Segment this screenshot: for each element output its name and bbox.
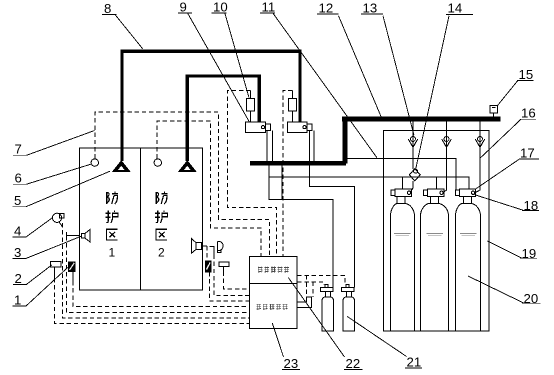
extinguishing controller label 灭火控制器 [256,304,287,310]
check valve CV1 [411,137,416,142]
wall between zone 1 and zone 2 [139,148,141,290]
horn wiring bracket [209,246,214,254]
leader 10 [225,13,249,98]
riser 1 lower link to cylinder head [411,181,414,192]
leader 7 [27,131,95,156]
selector valve SV2 outlet port [307,124,312,130]
svg-text:7: 7 [15,142,22,157]
svg-text:3: 3 [14,245,21,260]
underline 14 [446,13,473,15]
leader 19 [487,241,522,258]
lower collecting manifold [250,161,346,166]
svg-text:19: 19 [522,246,537,261]
underline 15 [517,79,534,81]
zone 2 label 区 [156,229,167,240]
SV1 port circle [261,126,264,129]
leader 13 [383,16,414,135]
right wall wiring drop from horn [214,254,250,295]
pilot header P2 with drops to cylinder heads [269,165,469,190]
svg-text:22: 22 [346,356,361,371]
underline 5 [13,206,27,208]
left wall wiring drop from button 1 [73,281,250,307]
gas cylinder 1 body [391,203,415,330]
cylinder 2 neck [431,197,439,204]
pilot branch line C [269,177,333,287]
nozzle N1 (zone 1) [112,160,131,172]
pilot bottle 2 [343,297,355,331]
leader 18 [473,194,525,211]
svg-text:9: 9 [180,0,187,14]
svg-text:21: 21 [407,354,422,369]
leader 20 [468,276,524,303]
svg-text:4: 4 [14,223,21,238]
cylinder frame [384,131,490,332]
leader 6 [27,164,91,184]
underline 20 [522,302,541,304]
manual call point right [219,262,229,267]
leader 2 [26,265,52,285]
leader 3 [26,236,82,258]
cylinder 2 content label [427,234,444,236]
solenoid SV1 stem [250,91,252,123]
underline 10 [212,12,227,14]
alarm controller label 报警控制器 [258,267,289,273]
svg-text:20: 20 [524,291,539,306]
pilot bottle release wiring 1 [297,275,345,297]
check valve CV2 [444,137,449,142]
fire detector D2 (zone 2) [154,159,161,166]
speaker S1 inside zone 1 [82,233,86,238]
cylinder 3 content label [460,234,477,236]
zone 2 label 防 [156,192,167,204]
alarm bell (item 4) outside zone 1 [52,213,61,222]
cylinder 1 head valve [395,189,412,197]
SV2 outlet pipe pair down to manifold [310,131,315,162]
underline 6 [13,183,27,185]
leader 14 [416,16,450,170]
check valve CV3 [478,137,483,142]
svg-text:12: 12 [319,0,334,15]
underline 17 [519,158,539,160]
svg-text:2: 2 [15,271,22,286]
zone 1 label 防 [107,192,118,204]
check valve riser 2 [444,121,447,192]
check valve riser 3 [475,121,480,193]
selector valve SV1 outlet port [266,124,271,130]
leader 23 [272,323,283,357]
leader 16 [480,119,521,158]
leader 12 [339,16,382,117]
control box outlet stubs [297,297,311,307]
leader 1 [26,266,70,306]
protection zone enclosure box [80,148,203,290]
underline 9 [178,12,192,14]
manual call point (item 2) [51,262,61,267]
svg-text:5: 5 [14,193,21,208]
leader 11 [273,13,377,158]
leader 17 [475,159,520,189]
svg-text:14: 14 [448,1,463,16]
right wall wiring drop from button 2 [209,272,249,301]
selector valve SV2 body [288,122,308,133]
cylinder 3 neck [464,197,472,204]
solenoid actuator for SV2 [289,99,297,112]
underline 7 [13,154,28,156]
svg-text:23: 23 [284,356,299,371]
manual start-stop button (item 1, hatched) [69,262,75,281]
underline 21 [405,367,422,369]
discharge pipe outer loop (to zone 1 nozzle) [122,51,300,161]
cylinder 1 neck [397,197,405,204]
manual button right (hatched) [206,261,211,272]
right wall wiring drop from call point 2 [224,272,250,290]
solenoid SV2 stem [292,91,294,123]
detector loop wiring zone 2 (inner dashed route) [157,121,261,257]
pilot bottle release wiring 2 [297,282,324,297]
underline 11 [260,12,275,14]
underline 8 [102,14,117,16]
underline 12 [317,13,339,15]
gas cylinder 2 body [421,203,449,330]
gas cylinder 3 body [456,203,481,330]
svg-text:15: 15 [519,67,534,82]
selector valve SV1 body [246,122,266,133]
fire detector D1 (zone 1) [91,159,98,166]
underline 13 [361,13,383,15]
left wall wiring drop from bell [62,223,249,318]
horn sounder (right of zone 2) [217,241,223,250]
svg-text:6: 6 [15,171,22,186]
cylinder 3 head valve [460,189,476,197]
zone 1 label 护 [106,211,118,223]
leader 4 [26,218,52,237]
solenoid SV2 control wiring [283,91,293,257]
SV1 outlet pipe pair down to manifold [267,131,273,162]
underline 1 [13,305,27,307]
pilot bottle 2 supply pipe [310,165,355,288]
cylinder 2 head valve [428,189,445,197]
pressure switch on manifold [490,106,498,114]
underline 23 [282,369,300,371]
underline 16 [520,118,537,120]
underline 22 [344,369,363,371]
svg-text:10: 10 [213,0,228,14]
pilot pipe P1 from riser step to cylinder 3 release [347,158,457,189]
leader 8 [115,15,143,49]
svg-text:2: 2 [158,246,165,260]
left wall wiring drop from speaker 1 [67,236,250,313]
svg-text:16: 16 [521,106,536,121]
svg-text:17: 17 [520,146,535,161]
left wall wiring drop from call point [55,278,250,324]
zone 1 label 区 [107,229,118,240]
nozzle N2 (zone 2) [178,160,197,172]
solenoid SV1 control wiring [228,91,277,257]
leader 22 [288,278,344,358]
svg-text:13: 13 [363,0,378,15]
cylinder 1 content label [394,234,411,236]
underline 19 [520,257,537,259]
right wall wiring drop from speaker 2 [206,246,208,261]
underline 2 [13,284,27,286]
underline 3 [13,258,27,260]
detector loop wiring zone 1 (outer dashed route) [95,112,270,257]
pressure operated device (diamond) on riser 1 [409,169,420,181]
leader 5 [26,171,110,207]
discharge pipe inner loop (to zone 2 nozzle) [187,76,259,161]
manifold riser step [342,119,347,164]
SV2 port circle [303,126,306,129]
leader 9 [188,13,250,122]
check valve riser 1 [412,121,414,169]
speaker S2 inside zone 2 [196,243,202,250]
underline 4 [13,236,27,238]
underline 18 [522,210,539,212]
svg-text:1: 1 [14,292,21,307]
svg-text:11: 11 [262,0,276,14]
upper collecting manifold [342,117,501,122]
solenoid actuator for SV1 [247,99,255,112]
svg-text:8: 8 [104,1,111,16]
control box (alarm + extinguishing controller) [250,257,298,329]
zone 2 label 护 [155,211,167,223]
pipe stub below manifold [281,165,283,200]
leader 21 [347,316,407,356]
leader 15 [498,80,518,105]
pilot bottle 1 [322,297,334,331]
svg-text:1: 1 [108,246,115,260]
